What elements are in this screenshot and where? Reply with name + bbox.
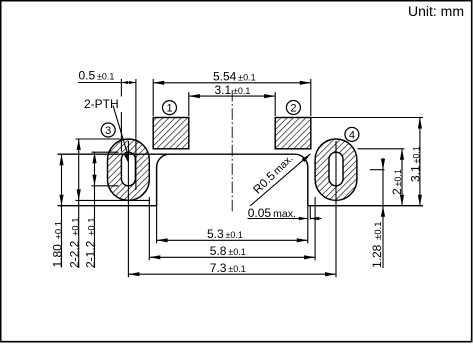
svg-text:0.05 max.: 0.05 max. bbox=[248, 206, 296, 220]
svg-text:2: 2 bbox=[290, 102, 296, 114]
svg-text:R0.5 max.: R0.5 max. bbox=[250, 151, 295, 196]
svg-text:5.8 ±0.1: 5.8 ±0.1 bbox=[210, 244, 246, 258]
svg-text:7.3 ±0.1: 7.3 ±0.1 bbox=[210, 261, 246, 275]
svg-text:2-2.2 ±0.1: 2-2.2 ±0.1 bbox=[68, 217, 82, 268]
svg-text:3: 3 bbox=[105, 125, 111, 137]
svg-text:5.3 ±0.1: 5.3 ±0.1 bbox=[207, 227, 243, 241]
svg-text:Unit: mm: Unit: mm bbox=[408, 3, 464, 19]
svg-text:3.1 ±0.1: 3.1 ±0.1 bbox=[408, 146, 422, 182]
svg-text:0.5 ±0.1: 0.5 ±0.1 bbox=[79, 69, 115, 83]
svg-text:1: 1 bbox=[166, 103, 172, 115]
svg-text:4: 4 bbox=[349, 129, 355, 141]
svg-text:2-1.2 ±0.1: 2-1.2 ±0.1 bbox=[84, 217, 98, 268]
svg-text:1.28 ±0.1: 1.28 ±0.1 bbox=[370, 221, 384, 268]
svg-text:1.80 ±0.1: 1.80 ±0.1 bbox=[51, 221, 65, 268]
svg-text:3.1 ±0.1: 3.1 ±0.1 bbox=[215, 83, 251, 97]
svg-text:2 ±0.1: 2 ±0.1 bbox=[390, 169, 404, 195]
svg-text:5.54 ±0.1: 5.54 ±0.1 bbox=[213, 70, 256, 84]
